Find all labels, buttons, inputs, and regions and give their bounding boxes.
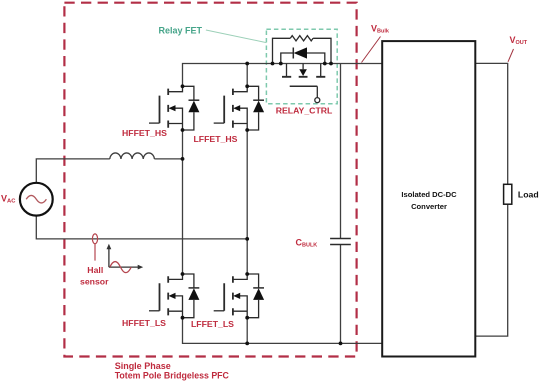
svg-text:Hall: Hall: [87, 265, 103, 275]
wire: LS sources to bottom rail to DC-DC converter: [183, 318, 383, 344]
svg-text:HFFET_HS: HFFET_HS: [122, 128, 167, 138]
resistor (relay bypass): [273, 38, 332, 63]
node: bottom rail junction at C_BULK: [339, 342, 343, 346]
svg-text:sensor: sensor: [80, 276, 109, 286]
hall current waveform icon: x-axis arrow: [109, 266, 139, 268]
svg-text:LFFET_LS: LFFET_LS: [191, 319, 234, 329]
wire: load bottom return to DC-DC: [475, 204, 507, 336]
transistor HFFET_HS: [149, 84, 199, 131]
svg-text:Converter: Converter: [411, 202, 447, 211]
wire: LF half-bridge midpoint vertical: [246, 130, 248, 274]
svg-text:HFFET_LS: HFFET_LS: [122, 318, 166, 328]
node: relay diode left: [279, 62, 283, 66]
wire: V_AC bottom lead to LF midpoint: [36, 216, 247, 239]
diode (relay parallel diode, pointing left): [281, 53, 325, 64]
wire: HF half-bridge midpoint vertical: [182, 130, 184, 274]
wire: DC-DC output top to load: [475, 63, 507, 184]
svg-text:Single Phase: Single Phase: [115, 361, 171, 371]
wire: V_AC top lead to inductor: [36, 159, 182, 183]
transistor LFFET_LS: [214, 272, 264, 320]
wire: C_BULK vertical branch: [340, 64, 342, 344]
relay FET transistor (drawn horizontally, body arrow down): [287, 64, 321, 77]
svg-text:Load: Load: [518, 190, 539, 200]
relay gate control terminal: [316, 86, 318, 97]
node: relay resistor right: [329, 62, 333, 66]
node: bottom rail junction at LFFET_LS: [245, 342, 249, 346]
wire: LFFET_HS drain riser: [246, 64, 248, 87]
AC source V_AC: [20, 183, 53, 216]
transistor LFFET_HS: [214, 84, 264, 131]
node: relay resistor left: [271, 62, 275, 66]
hall sensor ellipse on AC return wire: [92, 234, 97, 244]
load resistor: [504, 184, 512, 204]
node: AC return to LF midpoint junction: [245, 237, 249, 241]
svg-text:Relay FET: Relay FET: [159, 25, 203, 35]
svg-text:LFFET_HS: LFFET_HS: [194, 134, 238, 144]
capacitor C_BULK: [330, 239, 351, 245]
hall current waveform icon: y-axis arrow: [108, 247, 110, 268]
node: relay diode right: [323, 62, 327, 66]
node: inductor to HF midpoint junction: [181, 157, 185, 161]
inductor L1: [110, 153, 155, 159]
transistor HFFET_LS: [149, 272, 199, 320]
node: top rail junction at LFFET_HS: [245, 62, 249, 66]
Isolated DC-DC Converter block: [382, 41, 475, 356]
hall current waveform icon: sine wave: [110, 262, 131, 273]
red dashed boundary box: Single Phase Totem Pole Bridgeless PFC: [64, 3, 356, 357]
svg-text:RELAY_CTRL: RELAY_CTRL: [276, 106, 333, 116]
svg-text:Totem Pole Bridgeless PFC: Totem Pole Bridgeless PFC: [115, 371, 230, 381]
green dashed boundary box: Relay FET: [266, 29, 337, 104]
wire: top V_bulk rail from HFFET_HS riser to DC-DC converter: [183, 64, 383, 87]
svg-text:Isolated DC-DC: Isolated DC-DC: [401, 190, 457, 199]
